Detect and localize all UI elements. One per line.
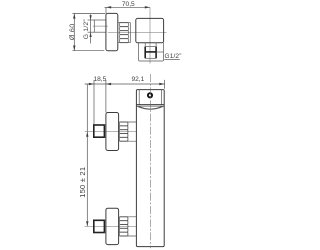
dimension G 1/2 bottom arrow [90, 32, 92, 37]
svg-text:18,5: 18,5 [93, 76, 106, 83]
inlet stub rectangle (top view, G1/2 thread) [94, 20, 106, 32]
stem neck end cap [129, 23, 131, 43]
mixer body column (front view) [136, 90, 164, 247]
knurled stem (top view): bead stack [120, 23, 129, 43]
dimension chain line [85, 83, 165, 85]
bottom inlet axis [85, 225, 137, 227]
top collar to body [128, 122, 137, 141]
dimension 70,5 left arrow [106, 6, 111, 8]
body center axis (dash-dot) [149, 74, 151, 248]
outlet boss below body (top view) [139, 43, 164, 61]
thread line extension to body edge [156, 51, 164, 53]
handle to knurl connectors [118, 22, 120, 24]
bottom collar to body [128, 217, 137, 236]
extension line right (body face) [164, 80, 166, 89]
dimension 150 ±21 line [86, 84, 88, 226]
dimension G 1/2 top extension line [88, 19, 95, 21]
svg-text:G 1/2”: G 1/2” [83, 19, 90, 40]
bottom wall flange [94, 220, 105, 232]
cap bottom edge [136, 104, 164, 106]
inlet stub centerline [93, 25, 108, 27]
cap inner line right [160, 90, 162, 105]
svg-text:92,1: 92,1 [131, 76, 144, 83]
top flange-nut connector bottom [104, 136, 106, 138]
body vertical axis (top view) [149, 7, 151, 63]
outlet window right side (thick) [155, 47, 157, 59]
dimension G 1/2 bottom extension line [88, 31, 95, 33]
dimension G 1/2 top arrow [90, 15, 92, 20]
dimension Ø60 top arrow [73, 13, 75, 18]
stem neck top line [128, 22, 130, 24]
handle knob (top view) [106, 13, 118, 50]
outlet thread mid bar (thick) [145, 51, 156, 53]
92,1 right arrow [159, 83, 164, 85]
top union nut [106, 113, 119, 151]
dimension Ø60 bottom extension line [73, 50, 105, 52]
dimension 70,5 right arrow [145, 6, 150, 8]
top flange-nut connector top [104, 124, 106, 126]
stem neck bottom line [128, 42, 130, 44]
top knurled ring: bead stack [119, 122, 128, 141]
dimension Ø60 top extension line [73, 12, 106, 14]
dimension G 1/2 line with outside arrows [90, 14, 92, 43]
extension line B (flange face) [93, 80, 95, 125]
bottom flange-nut connector bottom [104, 232, 106, 234]
G1/2 label underline [164, 58, 180, 60]
svg-text:Ø 60: Ø 60 [68, 24, 77, 41]
shared arrow at 105.9 [106, 83, 111, 85]
outlet window upper connectors [144, 43, 146, 47]
svg-text:70,5: 70,5 [122, 1, 135, 8]
18,5 left outside arrow [89, 83, 94, 85]
outlet window top edge [145, 46, 156, 48]
150 dim bottom arrow [86, 221, 88, 226]
top wall flange [94, 125, 105, 137]
outlet window left side (thick) [144, 47, 146, 59]
dimension 70,5 line [105, 6, 151, 8]
dimension 70,5 left extension line [105, 7, 107, 13]
svg-text:150 ± 21: 150 ± 21 [78, 167, 87, 198]
bottom union nut [106, 208, 119, 244]
cap inner line left [138, 90, 140, 105]
bottom flange-nut connector top [104, 219, 106, 221]
handle/stem horizontal axis (top view) [108, 31, 167, 33]
top inlet axis [85, 131, 137, 133]
extension line C (nut face) [105, 80, 107, 113]
150 dim top arrow [86, 132, 88, 137]
bottom knurled ring: bead stack [119, 217, 128, 236]
outlet window bottom edge [145, 57, 156, 59]
collar arc [136, 106, 164, 109]
dimension Ø60 bottom arrow [73, 46, 75, 51]
collar echo arc [139, 107, 162, 109]
mixer body (top view) [136, 18, 164, 42]
outlet hole dot on cap [148, 93, 152, 97]
dimension Ø60 line [73, 13, 75, 50]
collar line below cap [136, 105, 164, 107]
